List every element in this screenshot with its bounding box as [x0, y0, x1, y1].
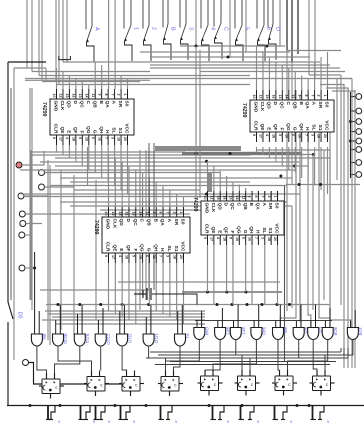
indicator X1: [46, 406, 55, 420]
svg-text:16: 16: [152, 255, 156, 259]
and gate G4 C11O: [95, 308, 111, 346]
svg-text:4: 4: [210, 27, 216, 30]
svg-text:SR: SR: [267, 203, 273, 210]
svg-text:9: 9: [252, 134, 256, 136]
wire dark vertical right of U4: [285, 51, 342, 363]
svg-text:18: 18: [172, 255, 176, 259]
and gate G16 1Q9: [347, 310, 363, 340]
svg-text:H: H: [304, 127, 310, 131]
svg-text:D0: D0: [17, 312, 23, 319]
wire top bus band: [14, 45, 352, 85]
connector terminal TL2: [39, 184, 45, 190]
svg-text:F: F: [132, 249, 138, 252]
svg-text:13: 13: [278, 95, 282, 99]
svg-text:17: 17: [111, 255, 115, 259]
wire switch S6 output: [202, 41, 210, 61]
svg-text:2: 2: [117, 94, 121, 96]
svg-text:VCC: VCC: [324, 120, 330, 131]
svg-text:QD: QD: [118, 219, 124, 227]
svg-text:QB: QB: [91, 101, 97, 109]
svg-text:9P7: 9P7: [225, 327, 230, 335]
svg-text:14: 14: [284, 95, 288, 99]
wire gate outputs to relay coils: [37, 340, 353, 374]
indicator X3: [94, 406, 106, 420]
svg-text:SL: SL: [166, 245, 172, 251]
svg-text:QH: QH: [298, 123, 304, 131]
svg-text:10: 10: [203, 196, 207, 200]
svg-text:F: F: [78, 131, 84, 134]
wire terminal TL1 lead: [45, 172, 97, 174]
svg-text:16: 16: [248, 237, 252, 241]
svg-text:8: 8: [159, 212, 163, 214]
shift register U4 74299: [192, 191, 284, 245]
relay K7: [272, 370, 297, 396]
svg-text:6: 6: [91, 137, 95, 139]
svg-text:VCC: VCC: [274, 223, 280, 234]
svg-text:QH: QH: [248, 226, 254, 234]
wire right terminal bus vertical: [349, 92, 352, 178]
wire node line above U4: [286, 183, 360, 186]
svg-text:74299: 74299: [241, 103, 247, 118]
svg-text:QA: QA: [304, 102, 310, 110]
connector terminal TL4: [19, 211, 25, 217]
svg-text:15: 15: [118, 212, 122, 216]
svg-text:QG: QG: [85, 126, 91, 134]
wire top-right vertical pair: [309, 0, 355, 100]
svg-text:8: 8: [254, 196, 258, 198]
svg-text:QC: QC: [132, 219, 138, 227]
svg-text:4: 4: [216, 237, 220, 239]
svg-text:16: 16: [297, 134, 301, 138]
svg-text:QC: QC: [278, 102, 284, 110]
relay K8: [310, 370, 335, 396]
svg-text:B: B: [152, 219, 158, 223]
svg-text:O44: O44: [205, 327, 210, 336]
svg-text:13: 13: [229, 196, 233, 200]
and gate G13 4IA: [293, 305, 309, 340]
and gate G14 C8: [308, 305, 324, 340]
label indicator X1: [58, 419, 61, 424]
svg-text:QF: QF: [72, 127, 78, 134]
svg-text:1: 1: [133, 27, 139, 30]
svg-text:G: G: [242, 230, 248, 234]
svg-text:A: A: [111, 101, 117, 105]
svg-text:QA: QA: [159, 219, 165, 227]
svg-text:18: 18: [125, 255, 129, 259]
switch S1 key A: [86, 0, 100, 43]
svg-text:2: 2: [267, 196, 271, 198]
svg-text:QB: QB: [291, 102, 297, 110]
wire relay band long feeds: [146, 348, 348, 365]
wire top-left vertical feeds: [27, 0, 115, 89]
svg-text:SL: SL: [261, 227, 267, 233]
svg-text:10: 10: [52, 94, 56, 98]
switch S6 key 4: [201, 0, 216, 42]
svg-text:CLK: CLK: [259, 102, 265, 112]
connector terminal TL6: [19, 232, 25, 238]
wire switch S8 output: [236, 41, 244, 61]
wire right vertical bus columns: [337, 75, 355, 368]
and gate G1 9I6: [31, 252, 47, 346]
shift register U1 74299: [41, 89, 134, 145]
svg-text:CLR: CLR: [253, 121, 259, 131]
indicator X5: [159, 406, 173, 420]
svg-text:F1: F1: [185, 334, 190, 340]
connector terminal TL7: [19, 265, 25, 271]
svg-text:1I1O: 1I1O: [154, 334, 159, 344]
svg-text:SL: SL: [311, 124, 317, 130]
svg-text:QF: QF: [223, 227, 229, 234]
switch S7 key C: [214, 0, 229, 40]
svg-text:QF: QF: [125, 245, 131, 252]
svg-text:H: H: [159, 248, 165, 252]
wire switch S7 output: [215, 39, 223, 59]
wire terminal TL5 lead: [26, 223, 42, 225]
connector terminal TR1: [356, 94, 362, 100]
svg-text:5: 5: [78, 137, 82, 139]
svg-text:G: G: [146, 248, 152, 252]
svg-text:GND: GND: [204, 203, 210, 214]
svg-text:13: 13: [131, 212, 135, 216]
svg-text:H: H: [104, 130, 110, 134]
svg-text:17: 17: [210, 237, 214, 241]
wire switch S2 output: [125, 41, 133, 61]
svg-text:CLK: CLK: [59, 101, 65, 111]
svg-text:3: 3: [166, 255, 170, 257]
svg-text:D: D: [223, 203, 229, 207]
svg-text:QA: QA: [104, 101, 110, 109]
svg-text:7: 7: [110, 94, 114, 96]
svg-text:CLK: CLK: [111, 219, 117, 229]
wire terminal TL7 lead: [25, 267, 35, 269]
svg-text:B: B: [248, 203, 254, 207]
svg-text:1: 1: [323, 95, 327, 97]
svg-text:20: 20: [179, 255, 183, 259]
svg-text:5: 5: [229, 237, 233, 239]
wire switch S3 output: [144, 41, 152, 61]
svg-text:15: 15: [265, 95, 269, 99]
connector terminal TR3: [356, 119, 362, 125]
svg-text:74299: 74299: [192, 197, 198, 212]
svg-text:3: 3: [260, 237, 264, 239]
and gate G2 9S16: [53, 305, 69, 346]
svg-text:15: 15: [216, 196, 220, 200]
svg-text:H: H: [255, 230, 261, 234]
wire terminal TR3 lead: [351, 121, 356, 123]
svg-text:SL: SL: [111, 127, 117, 133]
wire chip U3 bottom pin drops: [109, 263, 184, 324]
svg-text:1Q9: 1Q9: [358, 327, 363, 336]
svg-text:7: 7: [260, 196, 264, 198]
relay K3: [119, 371, 144, 397]
svg-text:16: 16: [72, 94, 76, 98]
wire bottom ground bus: [7, 404, 364, 407]
svg-text:A: A: [94, 27, 100, 31]
wire terminal TL8 lead: [29, 362, 34, 364]
connector terminal TR6: [356, 147, 362, 153]
svg-text:C: C: [139, 219, 145, 223]
svg-text:12: 12: [259, 95, 263, 99]
svg-text:A: A: [261, 203, 267, 207]
svg-text:G: G: [91, 130, 97, 134]
svg-text:7: 7: [310, 95, 314, 97]
wire terminal TR2 lead: [351, 110, 356, 112]
wire terminal TL2 lead: [45, 186, 75, 188]
svg-text:16: 16: [272, 95, 276, 99]
connector terminal TL3: [18, 193, 24, 199]
svg-text:14: 14: [84, 94, 88, 98]
and gate G10 9F7: [230, 305, 246, 340]
svg-text:14: 14: [235, 196, 239, 200]
svg-text:10: 10: [252, 95, 256, 99]
svg-text:9: 9: [104, 255, 108, 257]
svg-text:S1: S1: [267, 228, 273, 234]
svg-text:1: 1: [123, 94, 127, 96]
label indicator X8: [290, 419, 293, 424]
svg-text:QC: QC: [78, 101, 84, 109]
switch S8 key 5: [235, 0, 250, 42]
svg-text:1: 1: [273, 196, 277, 198]
svg-text:74299: 74299: [93, 220, 99, 235]
wire switch S5 output: [181, 40, 189, 60]
svg-text:GND: GND: [53, 101, 59, 112]
svg-text:S0: S0: [324, 102, 330, 108]
and gate G8 O44: [194, 311, 210, 340]
svg-text:3: 3: [188, 27, 194, 30]
svg-text:A: A: [166, 219, 172, 223]
and gate G11 94O: [251, 305, 267, 340]
indicator X7: [239, 406, 255, 420]
svg-text:QC: QC: [229, 203, 235, 211]
svg-text:C: C: [85, 101, 91, 105]
svg-text:D: D: [272, 102, 278, 106]
svg-text:QB: QB: [242, 203, 248, 211]
and gate G5 2I1O: [117, 305, 133, 346]
wire terminal TR4 lead: [351, 131, 356, 133]
svg-text:9: 9: [203, 237, 207, 239]
svg-text:3: 3: [110, 137, 114, 139]
svg-text:14: 14: [138, 212, 142, 216]
connector terminal TR5: [356, 138, 362, 144]
relay K1: [39, 373, 64, 399]
svg-text:GND: GND: [105, 219, 111, 230]
svg-text:CLR: CLR: [204, 224, 210, 234]
svg-text:QG: QG: [235, 226, 241, 234]
svg-text:S1: S1: [317, 125, 323, 131]
svg-text:12: 12: [210, 196, 214, 200]
svg-text:7: 7: [104, 137, 108, 139]
wire mid bus band: [20, 80, 330, 214]
wire chip U4 top pin feeds: [208, 161, 278, 206]
relay K6: [235, 370, 260, 396]
svg-text:18: 18: [117, 137, 121, 141]
svg-text:4: 4: [65, 137, 69, 139]
indicator X2: [79, 406, 91, 420]
svg-text:18: 18: [272, 134, 276, 138]
svg-text:GND: GND: [253, 102, 259, 113]
wire switch S4 output: [164, 40, 172, 60]
svg-text:5: 5: [278, 134, 282, 136]
svg-text:QE: QE: [210, 227, 216, 235]
svg-text:9F7: 9F7: [241, 327, 246, 335]
svg-text:16: 16: [222, 196, 226, 200]
connector terminal TL8: [23, 360, 29, 366]
svg-text:B: B: [170, 27, 176, 31]
svg-text:5: 5: [244, 27, 250, 30]
svg-text:19: 19: [284, 134, 288, 138]
svg-text:S0: S0: [274, 203, 280, 209]
svg-text:5: 5: [131, 255, 135, 257]
svg-text:QE: QE: [111, 245, 117, 253]
wire terminal TR7 lead: [351, 162, 356, 164]
svg-text:9: 9: [297, 95, 301, 97]
svg-text:9S16: 9S16: [63, 334, 68, 345]
svg-text:C: C: [235, 203, 241, 207]
svg-text:CLR: CLR: [53, 124, 59, 134]
svg-text:C: C: [285, 102, 291, 106]
wire terminal TL4 lead: [25, 213, 33, 215]
label indicator X6: [227, 419, 230, 424]
indicator X8: [273, 406, 288, 420]
svg-text:9: 9: [52, 137, 56, 139]
svg-text:9J14: 9J14: [85, 334, 90, 344]
svg-text:VCC: VCC: [180, 241, 186, 252]
wire top-middle vertical feeds: [196, 0, 298, 62]
svg-text:17: 17: [59, 137, 63, 141]
wire terminal TR8 lead: [351, 174, 356, 176]
svg-text:G: G: [291, 127, 297, 131]
wire chip U1 bottom pin drops: [57, 145, 128, 194]
wire terminal TR1 lead: [351, 96, 356, 98]
and gate G7 F1: [175, 305, 191, 346]
svg-text:QH: QH: [98, 126, 104, 134]
svg-text:7: 7: [166, 212, 170, 214]
svg-text:18: 18: [72, 137, 76, 141]
svg-text:7: 7: [254, 237, 258, 239]
svg-text:9: 9: [152, 212, 156, 214]
svg-text:19: 19: [138, 255, 142, 259]
svg-text:2: 2: [317, 95, 321, 97]
svg-text:QE: QE: [59, 127, 65, 135]
svg-text:18: 18: [267, 237, 271, 241]
and gate G3 9J14: [74, 305, 90, 346]
svg-text:20: 20: [273, 237, 277, 241]
wire chip U3 top pin feeds: [109, 155, 184, 207]
svg-text:9: 9: [97, 94, 101, 96]
relay K2: [84, 371, 109, 397]
svg-text:C: C: [223, 27, 229, 31]
wire chip U2 bottom pin drops: [257, 147, 328, 194]
svg-text:11: 11: [145, 212, 149, 216]
svg-text:94O: 94O: [262, 327, 267, 336]
label indicator X5: [175, 419, 178, 424]
svg-text:6: 6: [266, 27, 272, 30]
connector terminal TR4: [356, 129, 362, 135]
wire switch S9 output: [258, 41, 266, 61]
svg-text:9I6: 9I6: [42, 334, 47, 341]
switch S9 key 6: [257, 0, 272, 42]
wire chip U4 bottom pin drops: [208, 245, 278, 305]
svg-text:16: 16: [125, 212, 129, 216]
svg-text:6: 6: [145, 255, 149, 257]
svg-text:B: B: [298, 102, 304, 106]
connector terminal TL5: [20, 221, 26, 227]
wire terminal TR6 lead: [351, 149, 356, 151]
label indicator X3: [108, 419, 111, 424]
indicator X9: [311, 406, 325, 420]
svg-text:8: 8: [304, 95, 308, 97]
svg-text:QG: QG: [285, 123, 291, 131]
wire switch S1 output: [87, 42, 95, 62]
svg-text:1: 1: [179, 212, 183, 214]
svg-text:VCC: VCC: [124, 123, 130, 134]
svg-text:F: F: [278, 128, 284, 131]
wire relay K1 left lead: [29, 363, 43, 385]
connector terminal TR7: [356, 160, 362, 166]
svg-text:SR: SR: [173, 219, 179, 226]
indicator X4: [119, 406, 131, 420]
svg-text:SR: SR: [317, 102, 323, 109]
svg-text:CLR: CLR: [105, 242, 111, 252]
svg-text:6: 6: [291, 134, 295, 136]
svg-text:S1: S1: [173, 246, 179, 252]
svg-text:4: 4: [265, 134, 269, 136]
relay K5: [198, 370, 223, 396]
svg-text:6: 6: [241, 237, 245, 239]
wire left edge verticals and switch S11: [8, 62, 46, 406]
label indicator X4: [133, 419, 136, 424]
svg-text:13: 13: [78, 94, 82, 98]
svg-text:F: F: [229, 231, 235, 234]
connector terminal TR2: [356, 108, 362, 114]
svg-text:D: D: [275, 27, 281, 31]
and gate G9 9P7: [215, 308, 231, 340]
svg-text:2: 2: [172, 212, 176, 214]
relay K4: [158, 371, 183, 397]
svg-text:QF: QF: [272, 124, 278, 131]
svg-text:SR: SR: [117, 101, 123, 108]
svg-text:D: D: [72, 101, 78, 105]
svg-text:QG: QG: [139, 244, 145, 252]
svg-text:CLK: CLK: [210, 203, 216, 213]
svg-text:S0: S0: [124, 101, 130, 107]
wire lower bus band: [33, 240, 351, 328]
shift register U2 74299: [241, 90, 334, 142]
svg-text:7: 7: [159, 255, 163, 257]
wire chip U1 top pin feeds: [57, 62, 128, 89]
svg-text:8: 8: [104, 94, 108, 96]
svg-text:QD: QD: [216, 203, 222, 211]
svg-text:20: 20: [123, 137, 127, 141]
svg-text:S1: S1: [117, 128, 123, 134]
svg-text:7: 7: [304, 134, 308, 136]
svg-text:18: 18: [222, 237, 226, 241]
wire chip U2 top pin feeds: [257, 46, 328, 90]
wire terminal TR5 lead: [351, 140, 356, 142]
and gate G6 1I1O: [143, 305, 159, 346]
svg-text:3: 3: [310, 134, 314, 136]
probe terminal red: [16, 162, 22, 168]
capacitor C1: [134, 288, 197, 305]
svg-text:C11O: C11O: [106, 334, 111, 346]
switch S4 key B: [163, 0, 176, 41]
svg-text:11: 11: [241, 196, 245, 200]
wire terminal TL3 lead: [24, 195, 48, 197]
svg-text:19: 19: [84, 137, 88, 141]
switch S5 key 3: [180, 0, 194, 41]
and gate G15 9O8: [322, 308, 338, 340]
switch S2 key 1: [124, 0, 139, 42]
